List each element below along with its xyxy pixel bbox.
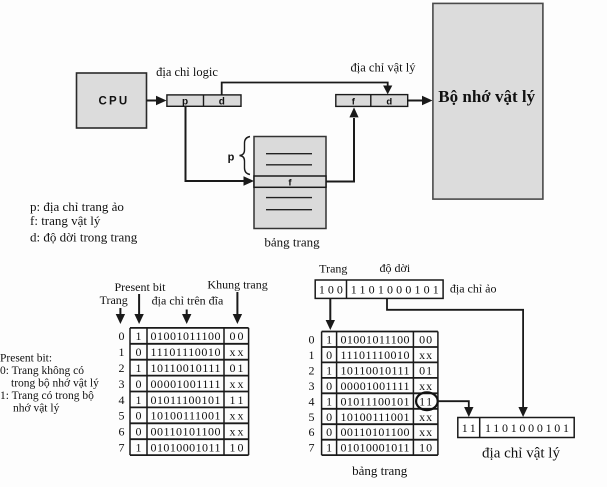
- wire p cell down to page table f row: [186, 106, 255, 185]
- svg-text:00001001111: 00001001111: [341, 379, 410, 393]
- wire circled frame to physical address box: [438, 401, 474, 417]
- svg-text:1: Trang có trong bộ: 1: Trang có trong bộ: [0, 390, 94, 402]
- wire virtual offset field to physical address box: [387, 298, 528, 417]
- svg-text:1: 1: [326, 333, 332, 347]
- right table row 3: [309, 379, 433, 393]
- svg-text:7: 7: [309, 441, 315, 455]
- svg-text:3: 3: [119, 377, 125, 391]
- label bang trang (bottom): [352, 463, 408, 478]
- svg-text:7: 7: [119, 441, 125, 455]
- svg-text:100: 100: [319, 282, 343, 296]
- circle highlight on frame 11: [416, 392, 438, 410]
- physical address result box: [458, 418, 574, 438]
- svg-text:1: 1: [136, 329, 142, 343]
- physical frame address box f|d: [336, 95, 408, 108]
- svg-text:11: 11: [419, 394, 432, 408]
- svg-text:4: 4: [309, 394, 315, 408]
- svg-text:f: trang vật lý: f: trang vật lý: [30, 213, 101, 228]
- svg-text:10110010111: 10110010111: [341, 363, 410, 377]
- label dia chi logic: [156, 65, 218, 79]
- svg-text:nhớ vật lý: nhớ vật lý: [13, 403, 60, 415]
- svg-text:0: 0: [309, 333, 315, 347]
- svg-text:Khung trang: Khung trang: [207, 278, 267, 292]
- svg-text:5: 5: [309, 410, 315, 424]
- svg-text:6: 6: [119, 425, 125, 439]
- svg-text:01001011100: 01001011100: [341, 333, 410, 347]
- header Trang (left table) with arrow: [100, 293, 128, 324]
- svg-text:Present bit: Present bit: [115, 280, 167, 294]
- svg-text:địa chỉ vật lý: địa chỉ vật lý: [351, 61, 417, 75]
- svg-text:01: 01: [230, 361, 244, 375]
- svg-text:0: 0: [136, 409, 142, 423]
- virtual address box: [315, 280, 443, 298]
- svg-text:CPU: CPU: [99, 95, 130, 107]
- right table row 1: [309, 348, 433, 362]
- right table row 7: [309, 441, 433, 455]
- right table row 0: [309, 333, 433, 347]
- svg-text:bảng trang: bảng trang: [352, 463, 408, 478]
- svg-text:0: 0: [326, 410, 332, 424]
- left page table grid: [130, 328, 249, 455]
- label dia chi vat ly (bottom): [482, 446, 560, 462]
- svg-text:01011100101: 01011100101: [151, 393, 221, 407]
- svg-text:Trang: Trang: [100, 293, 128, 307]
- physical memory box: [433, 3, 543, 199]
- CPU box: [77, 73, 147, 128]
- svg-text:xx: xx: [230, 409, 244, 423]
- svg-text:0: 0: [326, 425, 332, 439]
- svg-text:0: 0: [326, 379, 332, 393]
- svg-text:bảng trang: bảng trang: [264, 235, 320, 250]
- left table row 4: [119, 393, 244, 407]
- right table row 4: [309, 394, 433, 408]
- svg-text:01001011100: 01001011100: [151, 329, 221, 343]
- svg-text:0: 0: [326, 348, 332, 362]
- svg-text:1: 1: [309, 348, 315, 362]
- header Khung trang (left table) with arrow: [207, 278, 267, 325]
- right table row 5: [309, 410, 433, 424]
- wire virtual page field down to right table: [326, 298, 335, 330]
- wire CPU to logical address box: [147, 96, 167, 105]
- svg-text:6: 6: [309, 425, 315, 439]
- logical address box p|d: [167, 95, 241, 108]
- svg-text:10110010111: 10110010111: [151, 361, 221, 375]
- svg-text:xx: xx: [419, 425, 432, 439]
- left table row 5: [119, 409, 244, 423]
- svg-text:0: 0: [119, 329, 125, 343]
- svg-text:xx: xx: [230, 345, 244, 359]
- svg-text:10100111001: 10100111001: [341, 410, 410, 424]
- legend p f d: [30, 199, 138, 245]
- svg-text:01: 01: [419, 363, 432, 377]
- page table box (top diagram): [254, 137, 326, 229]
- left table row 7: [119, 441, 244, 455]
- svg-text:00110101100: 00110101100: [341, 425, 410, 439]
- svg-text:01010001011: 01010001011: [341, 441, 410, 455]
- svg-text:p: p: [182, 97, 188, 108]
- left table row 2: [119, 361, 244, 375]
- right table row 2: [309, 363, 433, 377]
- svg-text:11101110010: 11101110010: [341, 348, 410, 362]
- svg-text:p: địa chỉ trang ảo: p: địa chỉ trang ảo: [30, 199, 124, 214]
- svg-text:00: 00: [419, 333, 432, 347]
- svg-text:01010001011: 01010001011: [151, 441, 221, 455]
- svg-text:xx: xx: [230, 425, 244, 439]
- svg-text:10: 10: [230, 441, 244, 455]
- wire f|d box to physical memory: [408, 96, 433, 105]
- svg-text:1: 1: [326, 394, 332, 408]
- svg-text:11: 11: [230, 393, 244, 407]
- svg-text:2: 2: [119, 361, 125, 375]
- wire page table f row to f cell: [326, 107, 359, 181]
- label dia chi ao: [450, 282, 497, 296]
- label dia chi vat ly (top): [351, 61, 417, 75]
- svg-text:Trang: Trang: [319, 262, 347, 276]
- svg-text:0: Trang không có: 0: Trang không có: [0, 365, 84, 377]
- svg-text:4: 4: [119, 393, 125, 407]
- label do doi (virtual address): [380, 261, 411, 275]
- svg-text:3: 3: [309, 379, 315, 393]
- svg-text:0: 0: [136, 377, 142, 391]
- right page table grid: [322, 332, 438, 456]
- header dia chi tren dia (left table) with arrow: [152, 294, 224, 325]
- svg-text:d: d: [219, 97, 225, 108]
- svg-text:p: p: [228, 152, 235, 164]
- svg-text:Present bit:: Present bit:: [0, 353, 52, 365]
- left table row 1: [119, 345, 244, 359]
- svg-text:độ dời: độ dời: [380, 261, 411, 275]
- svg-text:1: 1: [136, 393, 142, 407]
- svg-text:xx: xx: [230, 377, 244, 391]
- label bang trang (top): [264, 235, 320, 250]
- svg-text:2: 2: [309, 363, 315, 377]
- svg-text:xx: xx: [419, 379, 432, 393]
- svg-text:1: 1: [119, 345, 125, 359]
- brace p for page table: [228, 137, 250, 175]
- header Present bit (left table) with arrow: [115, 280, 167, 324]
- svg-text:d: d: [386, 97, 392, 108]
- svg-text:00: 00: [230, 329, 244, 343]
- svg-text:10100111001: 10100111001: [151, 409, 221, 423]
- svg-text:0: 0: [136, 425, 142, 439]
- svg-text:Bộ nhớ vật lý: Bộ nhớ vật lý: [438, 87, 535, 106]
- wire logical d cell to physical d cell: [222, 83, 393, 95]
- svg-text:1: 1: [136, 361, 142, 375]
- svg-text:10: 10: [419, 441, 432, 455]
- svg-text:xx: xx: [419, 410, 432, 424]
- present bit legend: [0, 353, 99, 415]
- svg-text:11101110010: 11101110010: [151, 345, 221, 359]
- svg-text:1: 1: [136, 441, 142, 455]
- svg-text:địa chỉ logic: địa chỉ logic: [156, 65, 218, 79]
- svg-text:00001001111: 00001001111: [151, 377, 221, 391]
- svg-text:địa chỉ ảo: địa chỉ ảo: [450, 282, 497, 296]
- svg-text:0: 0: [136, 345, 142, 359]
- left table row 6: [119, 425, 244, 439]
- left table row 3: [119, 377, 244, 391]
- svg-text:d: độ dời trong trang: d: độ dời trong trang: [30, 230, 138, 245]
- svg-text:địa chỉ trên đĩa: địa chỉ trên đĩa: [152, 294, 224, 308]
- left table row 0: [119, 329, 244, 343]
- right table row 6: [309, 425, 433, 439]
- svg-text:địa chỉ vật lý: địa chỉ vật lý: [482, 446, 560, 462]
- svg-text:1: 1: [326, 363, 332, 377]
- svg-text:trong bộ nhớ vật lý: trong bộ nhớ vật lý: [11, 378, 99, 390]
- label Trang (virtual address): [319, 262, 347, 276]
- svg-text:xx: xx: [419, 348, 432, 362]
- svg-text:00110101100: 00110101100: [151, 425, 221, 439]
- svg-text:5: 5: [119, 409, 125, 423]
- svg-text:01011100101: 01011100101: [341, 394, 410, 408]
- svg-text:1: 1: [326, 441, 332, 455]
